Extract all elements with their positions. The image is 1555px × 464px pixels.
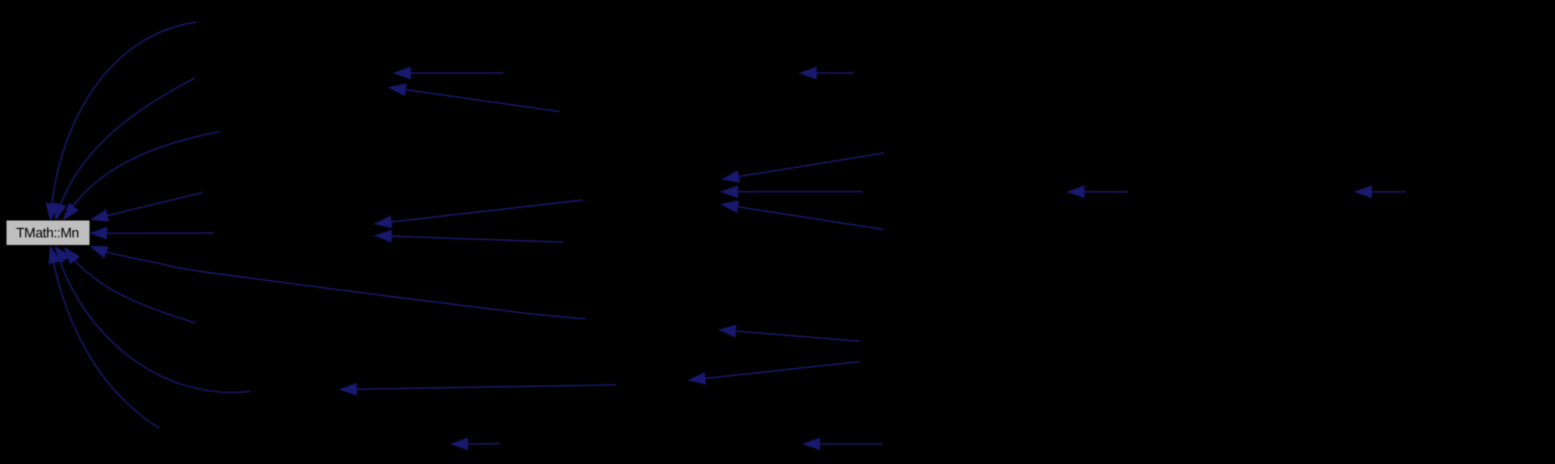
edge caller B1 -> TMath::Mn (horizontal mid) (91, 228, 214, 239)
edge caller A3 -> TMath::Mn (top curve 3) (64, 131, 221, 219)
edge -> hidden node col3 mid horizontal (722, 186, 863, 197)
edge -> hidden node col4 (1068, 186, 1128, 197)
edge -> hidden node col2 top (diagonal) (389, 84, 559, 112)
svg-text:TMath::Mn: TMath::Mn (16, 225, 79, 240)
edge caller D2 -> TMath::Mn (bottom curve 2) (56, 247, 251, 393)
edge -> hidden node col2 top (horizontal) (394, 67, 503, 78)
edge -> hidden node col3 mid from lower right (722, 201, 884, 229)
edge -> hidden node col3 bottom small (804, 438, 883, 449)
edge -> hidden node col5 (1355, 186, 1406, 197)
edge -> hidden node col2 bottom-left small (452, 438, 501, 449)
edge -> hidden node col2 mid upper (375, 200, 582, 228)
edge caller C1 -> TMath::Mn (long straight to lower right) (91, 247, 585, 319)
edge -> hidden node col3 lower from right down (720, 325, 860, 341)
edge -> hidden node col2 bottom (long horizontal) (340, 384, 616, 395)
edge -> hidden node col3 lower from right up (689, 362, 860, 385)
edge -> hidden node col3 top (800, 67, 854, 78)
edge caller A4 -> TMath::Mn (top-right straight) (92, 193, 203, 222)
edge caller A2 -> TMath::Mn (top curve 2) (55, 78, 195, 220)
edge caller A1 -> TMath::Mn (top curve 1) (46, 22, 196, 220)
edge caller D3 -> TMath::Mn (bottom curve 3) (49, 247, 160, 428)
edge -> hidden node col3 mid from upper right (723, 153, 885, 182)
node TMath::Mn (current function, grey box) (6, 220, 90, 246)
edge caller D1 -> TMath::Mn (bottom curve 1) (65, 248, 196, 323)
edge -> hidden node col2 mid lower (375, 231, 563, 243)
